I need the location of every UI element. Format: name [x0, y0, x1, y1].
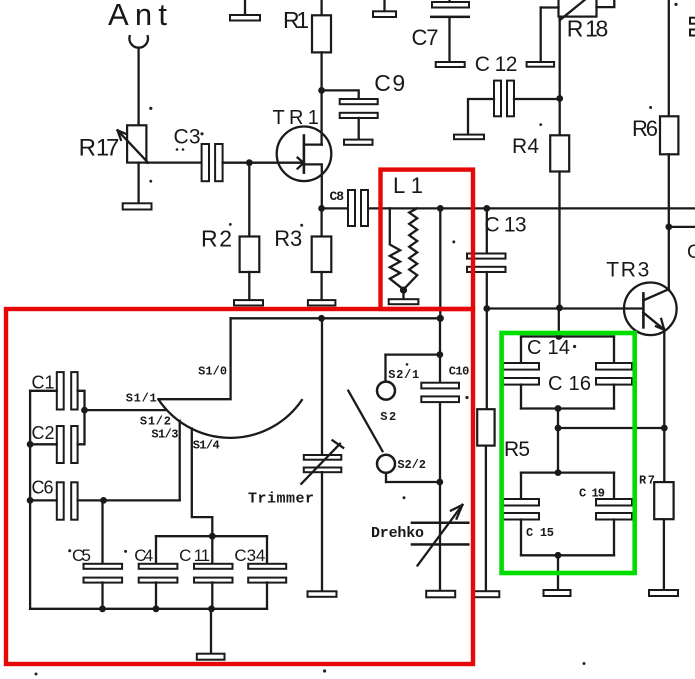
wire R18 to R4: [559, 17, 561, 136]
ground trimmer: [308, 591, 337, 597]
ground L1: [389, 290, 419, 304]
resistor R4: [550, 135, 569, 171]
wire S1/1 contact: [85, 409, 167, 411]
ground R3: [308, 300, 336, 305]
node C1/C2 junction: [81, 407, 88, 414]
svg-text:S1/0: S1/0: [198, 365, 227, 379]
ground bottom bus: [197, 609, 225, 660]
wire main bus: [368, 207, 695, 209]
node C2 left: [27, 441, 34, 448]
svg-text:C3: C3: [174, 126, 201, 149]
ground R5: [474, 591, 499, 597]
svg-text:C2: C2: [32, 423, 55, 443]
wire bottom bus: [30, 608, 267, 610]
node C14 box top: [555, 333, 562, 340]
node C13/TR3 base bus: [483, 305, 490, 312]
potentiometer R17: [118, 125, 202, 203]
node C12/R4: [556, 95, 563, 102]
svg-text:S1/1: S1/1: [126, 391, 157, 405]
ground C12: [454, 135, 484, 140]
svg-text:C34: C34: [234, 546, 265, 565]
resistor R6: [660, 0, 678, 289]
capacitor C7: [430, 0, 470, 62]
inductor L1 left winding: [390, 208, 404, 289]
wire L1 leg down to C10: [439, 318, 441, 382]
wire C10 down through Drehko to ground: [439, 402, 441, 591]
svg-text:S1/3: S1/3: [151, 428, 178, 442]
svg-text:TR3: TR3: [606, 259, 649, 282]
wire R4 down to TR3 base node: [558, 172, 560, 308]
node C6/C5: [100, 497, 107, 504]
svg-text:R2: R2: [201, 226, 232, 252]
node C6 left: [27, 497, 34, 504]
resistor R2: [240, 237, 260, 301]
svg-text:C 13: C 13: [485, 214, 527, 237]
wire S1/3 contact: [179, 421, 181, 501]
trimmer capacitor: [301, 318, 343, 591]
wire TR3 emitter down: [663, 330, 665, 482]
variable capacitor Drehko: [411, 505, 470, 566]
capacitor C12: [468, 81, 560, 135]
resistor R5: [477, 409, 494, 591]
svg-text:C7: C7: [412, 25, 439, 50]
wire TR3 base bus: [487, 307, 644, 309]
capacitor C8: [322, 190, 368, 226]
svg-text:R6: R6: [632, 116, 658, 141]
capacitor C14 (left): [503, 337, 614, 409]
node bottom bus C5: [99, 605, 106, 612]
inductor L1 right winding: [404, 208, 418, 289]
wire base node to R2: [248, 163, 250, 237]
wire emitter to R3: [320, 208, 322, 236]
svg-text:L 1: L 1: [393, 173, 423, 198]
node trimmer: [318, 315, 325, 322]
node bus/L1 leg: [437, 315, 444, 322]
ground C7: [436, 62, 465, 67]
capacitor C11: [194, 536, 233, 609]
svg-text:C 12: C 12: [475, 53, 518, 76]
svg-text:C8: C8: [330, 189, 345, 204]
node S2/2 branch: [436, 479, 443, 486]
node C13 top: [483, 205, 490, 212]
node L1 bottom: [400, 287, 407, 294]
capacitor partial at right edge: [690, 18, 695, 36]
ground (top, left of R1): [230, 0, 260, 21]
capacitor C5: [84, 564, 123, 609]
wire S1/4 pole: [192, 429, 213, 537]
svg-text:R4: R4: [512, 135, 539, 158]
svg-text:R3: R3: [274, 226, 302, 251]
svg-text:S2: S2: [380, 410, 396, 424]
svg-text:C4: C4: [134, 546, 153, 565]
svg-text:R7: R7: [639, 474, 655, 488]
svg-text:S1/2: S1/2: [140, 415, 171, 429]
potentiometer R18: [541, 0, 615, 62]
svg-text:C 1: C 1: [32, 373, 55, 393]
wire trimmer bus: [231, 317, 441, 319]
svg-text:Drehko: Drehko: [371, 525, 424, 542]
capacitor C6: [30, 482, 180, 519]
ground R7: [649, 590, 678, 596]
wire branch to right edge: [669, 226, 695, 228]
capacitor C19 (right): [521, 473, 632, 556]
wire C5 top: [101, 500, 103, 563]
svg-text:R 1: R 1: [283, 7, 309, 33]
node bottom bus C4: [153, 605, 160, 612]
resistor R1: [312, 0, 331, 145]
node R6 branch: [665, 224, 672, 231]
svg-text:S2/2: S2/2: [397, 458, 426, 472]
svg-text:S1/4: S1/4: [193, 439, 220, 453]
capacitor C3: [202, 144, 304, 181]
svg-text:C 15: C 15: [526, 526, 554, 540]
antenna symbol: [129, 36, 148, 48]
capacitor C1: [30, 372, 84, 410]
svg-text:R 17: R 17: [79, 135, 120, 162]
capacitor C15 (left): [503, 473, 614, 556]
svg-text:TR1: TR1: [273, 107, 319, 129]
svg-text:C 14: C 14: [527, 337, 570, 359]
wire top bus C4-C34: [156, 535, 267, 537]
capacitor C10: [421, 383, 459, 402]
wire S1/0 contact: [159, 318, 231, 399]
node L1 top: [437, 205, 444, 212]
svg-text:R5: R5: [504, 438, 530, 461]
svg-text:C 16: C 16: [548, 373, 591, 395]
highlight box C14-C19 (green): [502, 333, 635, 573]
wire between cap boxes: [557, 409, 559, 473]
wire to C9: [322, 90, 359, 99]
ground (top, right of R1): [373, 0, 396, 17]
svg-text:C10: C10: [449, 365, 470, 379]
svg-text:C6: C6: [32, 478, 54, 498]
wire left rail: [29, 391, 31, 609]
switch S2: [348, 355, 440, 482]
svg-text:C9: C9: [374, 70, 405, 96]
node C14 box bottom: [555, 405, 562, 412]
ground R17: [123, 203, 152, 209]
wire L1 right leg: [439, 208, 441, 318]
node R7 branch: [661, 425, 668, 432]
ground C9: [344, 140, 373, 145]
svg-text:C: C: [687, 242, 695, 263]
ground C15 box: [544, 555, 571, 596]
capacitor C4: [139, 536, 178, 609]
node S2/1 branch: [436, 351, 443, 358]
highlight box L1 (red): [381, 170, 474, 309]
wire stub to C14 box: [558, 308, 560, 337]
ground Drehko: [426, 591, 455, 598]
capacitor C9: [340, 99, 378, 140]
resistor R3: [312, 237, 332, 301]
node R4/TR3/C14: [556, 304, 563, 311]
svg-text:C5: C5: [72, 546, 91, 565]
ground R18: [527, 62, 555, 67]
ground R2: [234, 300, 263, 305]
node R1/C9: [318, 87, 325, 94]
node C15 box top: [555, 469, 562, 476]
capacitor C13: [467, 208, 506, 409]
capacitor C2: [30, 410, 84, 463]
transistor TR3: [624, 283, 677, 336]
wire C14 node to R7 node: [558, 427, 664, 429]
svg-text:Trimmer: Trimmer: [248, 491, 314, 508]
node C15 box bottom: [555, 552, 562, 559]
rotary switch S1 arc: [159, 400, 302, 438]
transistor TR1: [277, 127, 332, 209]
node TR1 emitter: [318, 205, 325, 212]
svg-text:C 19: C 19: [579, 487, 605, 501]
highlight box input section (red): [6, 309, 473, 664]
node S1/4 top bus: [209, 533, 216, 540]
svg-text:S2/1: S2/1: [388, 368, 419, 382]
node TR1 base: [246, 159, 253, 166]
svg-text:R 18: R 18: [567, 16, 609, 42]
svg-text:C 11: C 11: [179, 546, 210, 565]
node bottom bus C11: [208, 605, 215, 612]
capacitor C34: [248, 536, 286, 609]
resistor R7: [654, 482, 673, 590]
node branch to R7: [555, 425, 562, 432]
svg-text:Ant: Ant: [108, 0, 167, 32]
wire antenna to R17: [137, 48, 139, 126]
capacitor C16 (right): [521, 337, 632, 409]
